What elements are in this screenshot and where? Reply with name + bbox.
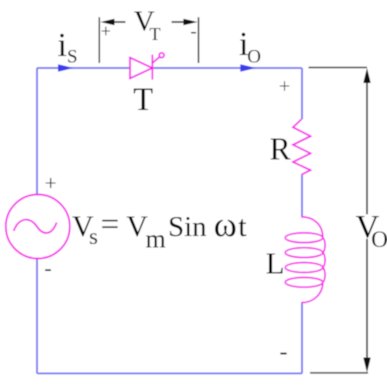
- VT measurement ticks: [99, 17, 198, 63]
- wire right middle: [301, 175, 303, 217]
- svg-text:-: -: [280, 340, 288, 366]
- svg-text:s: s: [89, 224, 98, 249]
- svg-text:+: +: [45, 171, 57, 195]
- svg-text:O: O: [247, 47, 261, 68]
- svg-text:Sin: Sin: [168, 211, 207, 243]
- wire right upper: [301, 68, 303, 119]
- wire top left segment: [37, 67, 130, 69]
- svg-text:=: =: [101, 207, 120, 243]
- VO vertical line upper: [366, 80, 368, 214]
- svg-text:ω: ω: [214, 205, 237, 244]
- VO bottom arrowhead: [363, 358, 370, 373]
- VO measurement bottom line: [310, 372, 368, 374]
- sine symbol: [14, 220, 57, 233]
- svg-text:T: T: [150, 24, 161, 44]
- svg-text:+: +: [101, 21, 111, 41]
- thyristor T: [130, 53, 164, 80]
- svg-text:+: +: [279, 76, 290, 98]
- svg-text:T: T: [133, 82, 153, 118]
- wire left lower: [36, 259, 38, 374]
- svg-text:O: O: [371, 227, 387, 252]
- svg-text:-: -: [190, 22, 196, 43]
- inductor L: [285, 217, 325, 303]
- svg-text:-: -: [44, 255, 51, 280]
- wire right lower: [301, 303, 303, 374]
- VT right arrow: [172, 21, 191, 23]
- VO measurement top line: [309, 67, 368, 69]
- svg-text:R: R: [270, 132, 291, 167]
- svg-text:m: m: [146, 225, 166, 254]
- VO top arrowhead: [363, 68, 370, 83]
- svg-text:i: i: [58, 27, 67, 64]
- arrow is current: [58, 64, 74, 71]
- svg-text:L: L: [266, 246, 285, 281]
- svg-text:t: t: [238, 210, 247, 243]
- VO vertical line lower: [366, 239, 368, 360]
- wire left upper: [36, 68, 38, 195]
- AC source Vs: [6, 195, 70, 259]
- svg-text:S: S: [67, 47, 78, 68]
- arrow iO current: [240, 64, 256, 71]
- VT left arrow: [108, 21, 126, 23]
- wire top right segment: [152, 67, 302, 69]
- wire bottom: [37, 372, 302, 374]
- resistor R: [293, 119, 311, 174]
